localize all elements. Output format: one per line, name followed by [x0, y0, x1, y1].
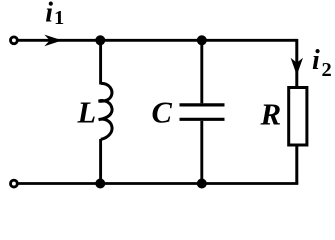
- current arrow i1: [44, 35, 62, 47]
- current arrow i2: [291, 58, 303, 75]
- svg-text:L: L: [77, 95, 97, 129]
- svg-text:C: C: [152, 96, 173, 130]
- wire (top rail): [17, 39, 297, 42]
- resistor R body: [289, 88, 307, 146]
- svg-text:1: 1: [54, 7, 64, 29]
- capacitor C bottom plate: [180, 118, 225, 121]
- capacitor C top plate: [180, 103, 225, 106]
- node (top, C branch): [197, 35, 207, 45]
- node (top, L branch): [95, 35, 105, 45]
- wire (C branch lower stub): [200, 121, 203, 184]
- svg-text:R: R: [260, 97, 282, 132]
- wire (L branch lower stub): [99, 139, 102, 184]
- wire (resistor to bottom rail): [295, 146, 298, 184]
- wire (bottom rail): [17, 182, 298, 185]
- node (bottom, L branch): [95, 179, 105, 189]
- node (bottom, C branch): [197, 179, 207, 189]
- svg-text:2: 2: [322, 59, 332, 81]
- terminal (top-left input): [11, 37, 18, 44]
- inductor L coil: [99, 83, 112, 139]
- wire (right vertical, top rail to resistor): [295, 39, 298, 87]
- terminal (bottom-left input): [11, 180, 18, 187]
- wire (L branch upper stub): [99, 40, 102, 84]
- wire (C branch upper stub): [200, 40, 203, 103]
- svg-text:i: i: [312, 45, 320, 76]
- svg-text:i: i: [45, 0, 53, 29]
